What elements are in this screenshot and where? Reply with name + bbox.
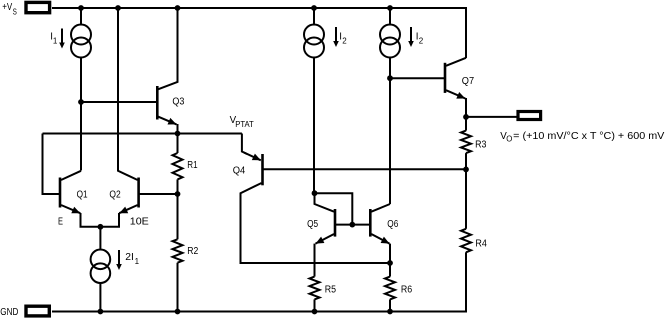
arrow I2 right direction xyxy=(410,27,412,42)
svg-text:Q2: Q2 xyxy=(109,190,120,201)
svg-text:R1: R1 xyxy=(187,160,197,171)
node R5 at ground rail xyxy=(312,309,318,315)
svg-text:R5: R5 xyxy=(325,284,337,295)
node R6 at ground rail xyxy=(387,309,393,315)
svg-text:E: E xyxy=(58,217,63,228)
svg-text:R2: R2 xyxy=(187,246,198,257)
node Q6 emitter R6 xyxy=(387,260,393,266)
node R3 R4 junction Q4 base xyxy=(463,167,469,173)
resistor R3 xyxy=(465,117,467,131)
node Q1 Q2 emitters xyxy=(98,224,104,230)
wire top rail +Vs xyxy=(52,8,466,58)
svg-text:2: 2 xyxy=(342,37,347,46)
node output Vo xyxy=(463,114,469,120)
resistor R5 xyxy=(310,277,320,300)
resistor R1 xyxy=(177,134,179,154)
svg-text:= (+10 mV/°C x T °C) + 600 mV: = (+10 mV/°C x T °C) + 600 mV xyxy=(513,131,665,142)
svg-text:S: S xyxy=(13,6,17,16)
transistor Q2 xyxy=(137,178,140,208)
arrow I1 direction xyxy=(61,29,63,44)
node top rail at I1 xyxy=(78,5,84,11)
current source I2 right xyxy=(389,8,391,25)
resistor R4 xyxy=(465,169,467,228)
wire Q5 collector to bases xyxy=(315,193,353,224)
resistor R6 xyxy=(389,263,391,277)
svg-text:Q5: Q5 xyxy=(307,219,318,230)
transistor Q6 xyxy=(369,209,372,237)
node top rail at Q2 collector xyxy=(115,5,121,11)
node 2I1 at ground rail xyxy=(98,309,104,315)
node R1 R2 junction Q2 base xyxy=(175,191,181,197)
transistor Q3 xyxy=(156,86,159,120)
svg-text:Q4: Q4 xyxy=(233,165,246,176)
wire Q5 Q6 bases xyxy=(335,224,370,226)
arrow 2I1 direction xyxy=(118,250,120,265)
node I1 to Q3 base xyxy=(78,99,84,105)
resistor R2 xyxy=(173,239,183,262)
svg-text:2: 2 xyxy=(419,37,424,46)
svg-text:1: 1 xyxy=(135,257,140,266)
svg-text:R4: R4 xyxy=(475,238,487,249)
transistor Q5 xyxy=(334,209,337,237)
svg-text:O: O xyxy=(506,135,512,144)
svg-text:Q3: Q3 xyxy=(172,97,184,108)
svg-text:GND: GND xyxy=(0,307,18,318)
node top rail at Q3 collector xyxy=(175,5,181,11)
svg-text:10E: 10E xyxy=(130,217,150,228)
terminal GND xyxy=(26,306,49,316)
svg-text:R6: R6 xyxy=(401,284,413,295)
transistor Q4 xyxy=(261,154,264,185)
node Q5 collector tie xyxy=(312,190,318,196)
svg-text:PTAT: PTAT xyxy=(235,120,254,129)
transistor Q7 xyxy=(444,63,447,93)
svg-text:Q7: Q7 xyxy=(462,76,474,87)
wire ground rail xyxy=(52,252,466,311)
svg-text:2I: 2I xyxy=(125,252,134,263)
terminal +Vs xyxy=(26,2,50,12)
wire Vptat rail xyxy=(43,133,242,135)
node top rail at I2a xyxy=(311,5,317,11)
node R2 at ground rail xyxy=(175,309,181,315)
node Vptat at R1 top xyxy=(175,131,181,137)
current source 2I1 xyxy=(99,227,101,250)
svg-text:Q6: Q6 xyxy=(387,219,398,230)
wire to output terminal xyxy=(466,116,517,118)
svg-text:R3: R3 xyxy=(475,139,487,150)
current source I1 xyxy=(80,8,82,25)
svg-text:Q1: Q1 xyxy=(77,190,88,201)
node top rail at I2b xyxy=(387,5,393,11)
terminal Vo xyxy=(518,112,541,120)
svg-text:1: 1 xyxy=(53,37,58,46)
wire Q3 base xyxy=(81,101,156,103)
arrow I2 left direction xyxy=(335,27,337,42)
node Q5 Q6 base junction xyxy=(349,222,355,228)
current source I2 left xyxy=(313,8,315,25)
transistor Q1 xyxy=(59,178,62,208)
node Q7 base at I2 right xyxy=(387,75,393,81)
svg-text:+V: +V xyxy=(2,2,12,13)
wire Q7 base xyxy=(390,77,444,79)
